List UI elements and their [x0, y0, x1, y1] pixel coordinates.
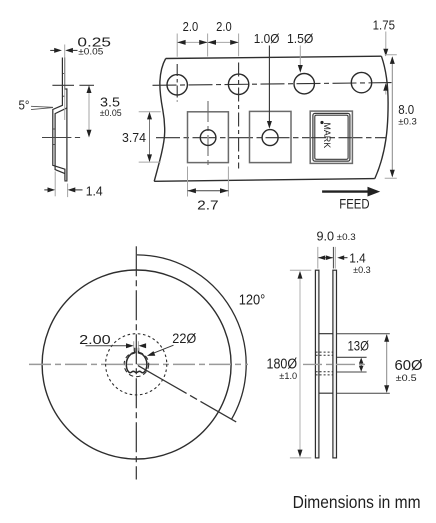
svg-text:1.75: 1.75 — [373, 19, 395, 33]
sprocket hole 3 — [294, 74, 314, 94]
pocket P1 — [188, 112, 229, 163]
svg-text:FEED: FEED — [339, 197, 370, 212]
pocket 1 vertical centerline — [207, 101, 209, 169]
svg-text:±1.0: ±1.0 — [279, 371, 297, 382]
FEED arrow — [322, 187, 380, 212]
svg-text:±0.3: ±0.3 — [337, 232, 356, 242]
svg-text:Dimensions in mm: Dimensions in mm — [293, 492, 421, 512]
hole 2 vertical centerline — [238, 63, 240, 169]
dimension 2.00 — [79, 332, 146, 351]
dimension 0.25 — [50, 35, 111, 120]
svg-text:2.00: 2.00 — [79, 332, 111, 347]
svg-text:2.0: 2.0 — [216, 19, 232, 34]
pocket centerline — [156, 137, 386, 139]
svg-text:1.0Ø: 1.0Ø — [254, 32, 280, 46]
hub dotted circle 22 dia — [106, 334, 167, 395]
radial line 120 deg — [138, 366, 236, 422]
60 dia extension lines — [337, 334, 390, 394]
tape cross-section profile — [53, 58, 68, 181]
chip mark dot — [320, 121, 323, 124]
svg-text:60Ø: 60Ø — [395, 357, 423, 374]
pocket P2 — [250, 111, 292, 162]
chip outline — [313, 113, 350, 161]
sprocket hole 4 — [351, 72, 371, 92]
svg-text:3.74: 3.74 — [122, 130, 146, 145]
hole 1 vertical centerline — [176, 64, 178, 102]
reel outer circle — [42, 270, 231, 459]
svg-text:13Ø: 13Ø — [347, 339, 369, 354]
dimension 3.74 — [122, 112, 161, 162]
dimension 1.75 — [373, 19, 395, 95]
carrier tape outline — [154, 56, 388, 181]
svg-text:9.0: 9.0 — [317, 228, 335, 243]
hidden bore dotted lines — [316, 352, 333, 375]
reel vertical centerline — [135, 246, 137, 479]
svg-text:120°: 120° — [239, 292, 266, 308]
dimension 9.0 — [317, 228, 356, 268]
svg-text:±0.05: ±0.05 — [100, 108, 122, 118]
dimension 1.4 flange — [337, 251, 370, 275]
dimension 13 dia — [337, 339, 369, 372]
label 22 dia — [147, 331, 197, 356]
side view centerline — [303, 363, 366, 365]
dimension 2.7 — [188, 167, 229, 213]
svg-text:1.4: 1.4 — [349, 251, 365, 266]
component hole P2 — [262, 130, 278, 146]
svg-text:8.0: 8.0 — [398, 102, 414, 117]
svg-text:1.4: 1.4 — [86, 183, 103, 198]
angle label 5 deg — [19, 98, 54, 113]
svg-text:±0.3: ±0.3 — [353, 265, 371, 275]
svg-text:2.7: 2.7 — [197, 197, 219, 212]
120 degree arc — [137, 255, 246, 419]
dimension 8.0 — [385, 55, 417, 179]
hub dashed circle — [124, 352, 149, 377]
svg-text:22Ø: 22Ø — [172, 331, 196, 346]
hub keyed hole — [126, 348, 147, 373]
svg-text:2.0: 2.0 — [183, 19, 199, 34]
reel flange left — [315, 270, 319, 458]
component hole P1 — [200, 130, 216, 146]
svg-text:1.5Ø: 1.5Ø — [287, 32, 314, 46]
hub lines side view — [319, 334, 333, 394]
label 1.5 dia — [287, 32, 314, 73]
reel horizontal centerline — [29, 363, 248, 365]
label 1.0 dia — [254, 32, 280, 129]
sprocket centerline — [153, 83, 392, 86]
dimension 2.0 pitch — [177, 19, 238, 57]
dimension 60 dia — [384, 334, 423, 393]
sprocket hole 2 — [228, 74, 248, 94]
sprocket hole 1 — [167, 75, 187, 95]
svg-text:±0.3: ±0.3 — [398, 117, 417, 127]
svg-text:MARK: MARK — [321, 122, 332, 148]
dimension 180 dia — [267, 270, 312, 458]
svg-text:5°: 5° — [19, 98, 30, 113]
pocket P3 — [310, 111, 352, 163]
svg-text:±0.05: ±0.05 — [78, 47, 103, 57]
dimension 3.5 — [52, 85, 121, 137]
dimension 1.4 — [44, 171, 102, 198]
svg-text:±0.5: ±0.5 — [396, 373, 417, 384]
reel flange right — [333, 270, 337, 458]
centerline cross-section — [42, 137, 81, 139]
